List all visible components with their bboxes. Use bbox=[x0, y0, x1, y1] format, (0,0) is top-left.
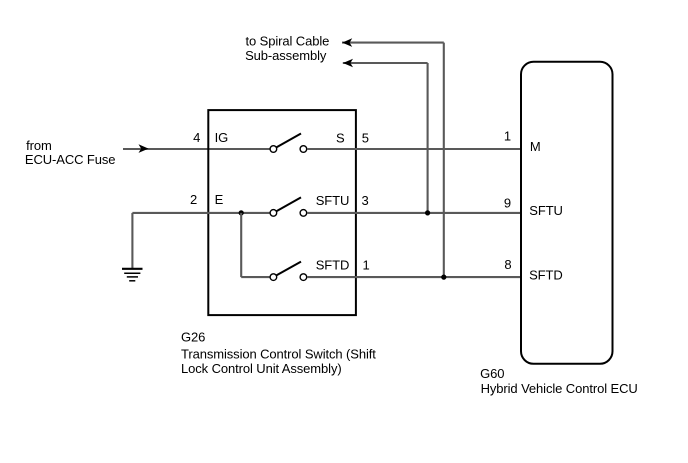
wire: vertical drop from lower spiral-cable arrow to SFTU net bbox=[427, 63, 429, 213]
svg-text:SFTD: SFTD bbox=[316, 258, 350, 273]
ECU G60 name label bbox=[480, 366, 638, 396]
svg-text:SFTU: SFTU bbox=[316, 193, 350, 208]
svg-text:G60: G60 bbox=[480, 366, 504, 381]
svg-text:S: S bbox=[336, 131, 345, 146]
wire: E bus drop to SFTD switch bbox=[240, 213, 242, 277]
node: junction SFTU / spiral cable bbox=[425, 210, 430, 215]
connector G26 box bbox=[208, 110, 356, 315]
wire: SFTD output to G60 pin 8 bbox=[307, 276, 520, 278]
svg-text:Sub-assembly: Sub-assembly bbox=[245, 48, 327, 63]
node: from ECU-ACC Fuse label bbox=[25, 138, 116, 167]
svg-text:E: E bbox=[215, 192, 224, 207]
svg-text:IG: IG bbox=[215, 130, 229, 145]
svg-text:1: 1 bbox=[504, 129, 511, 144]
svg-text:SFTU: SFTU bbox=[529, 203, 563, 218]
wire: arrow to spiral cable (lower, from SFTU net) bbox=[343, 59, 428, 68]
ground bbox=[122, 269, 143, 281]
node: junction of E bus inside G26 bbox=[239, 210, 244, 215]
node: to Spiral Cable label bbox=[245, 33, 329, 63]
wire: ground drop bbox=[131, 213, 133, 268]
svg-text:Lock Control Unit Assembly): Lock Control Unit Assembly) bbox=[181, 361, 342, 376]
wire: SFTU output to G60 pin 9 bbox=[307, 212, 520, 214]
svg-text:8: 8 bbox=[504, 257, 511, 272]
ECU G60 box bbox=[521, 62, 613, 364]
switch SW1 (IG-S) bbox=[270, 134, 307, 153]
svg-text:G26: G26 bbox=[181, 329, 205, 344]
svg-text:SFTD: SFTD bbox=[529, 267, 563, 282]
svg-text:ECU-ACC Fuse: ECU-ACC Fuse bbox=[25, 152, 116, 167]
svg-text:4: 4 bbox=[193, 130, 200, 145]
svg-text:to Spiral Cable: to Spiral Cable bbox=[246, 33, 330, 48]
svg-text:3: 3 bbox=[362, 193, 369, 208]
switch SW3 (E-SFTD) bbox=[270, 262, 307, 281]
svg-text:2: 2 bbox=[190, 192, 197, 207]
svg-text:Transmission Control Switch (S: Transmission Control Switch (Shift bbox=[181, 346, 376, 361]
connector G26 name label bbox=[181, 329, 376, 376]
svg-text:from: from bbox=[26, 138, 52, 153]
svg-text:M: M bbox=[530, 139, 541, 154]
svg-text:9: 9 bbox=[504, 196, 511, 211]
svg-text:Hybrid Vehicle Control ECU: Hybrid Vehicle Control ECU bbox=[481, 381, 638, 396]
wire: E pin to ground bbox=[132, 212, 269, 214]
svg-text:1: 1 bbox=[363, 258, 370, 273]
wire: arrow to spiral cable (upper, from S/M net) bbox=[342, 38, 444, 47]
wire: S output to G60 pin 1 bbox=[307, 148, 520, 150]
switch SW2 (E-SFTU) bbox=[270, 197, 307, 216]
wire: vertical drop from upper spiral-cable arrow to SFTD net bbox=[443, 43, 445, 278]
node: junction SFTD / spiral cable bbox=[441, 275, 446, 280]
wire: IG feed from ECU-ACC fuse with arrowhead into pin 4 bbox=[123, 144, 270, 153]
svg-text:5: 5 bbox=[362, 130, 369, 145]
wire: E bus to SFTD switch bbox=[241, 276, 269, 278]
